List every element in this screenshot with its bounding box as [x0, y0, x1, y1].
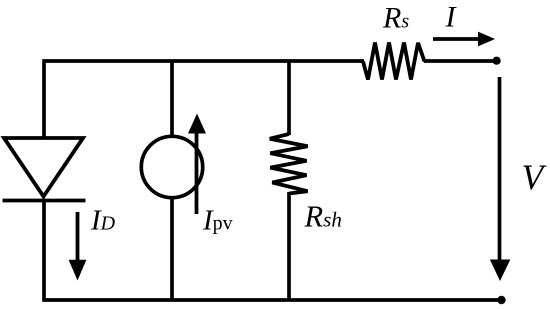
svg-text:Rs: Rs [382, 2, 409, 35]
node - : bottom-right terminal dot [497, 296, 505, 304]
svg-text:Rsh: Rsh [304, 199, 342, 233]
svg-text:I: I [445, 0, 458, 33]
current source Ipv circle [141, 136, 202, 197]
diode D1 cathode bar [3, 199, 86, 203]
resistor Rsh (vertical zigzag) [270, 134, 308, 194]
svg-text:ID: ID [90, 205, 116, 237]
wire current source bottom to bottom rail [170, 198, 174, 300]
node + : top-right terminal dot [493, 57, 501, 65]
arrow of current source Ipv (upward) [188, 114, 206, 215]
wire middle branch top (current source to top rail) [170, 61, 174, 136]
svg-text:V: V [522, 157, 548, 197]
wire Rsh branch top [287, 61, 291, 135]
wire top-left: left vertical + top horizontal run to Rs [42, 61, 364, 138]
wire top-right: from Rs to positive terminal [424, 59, 495, 63]
svg-text:Ipv: Ipv [202, 205, 233, 237]
wire Rsh bottom to bottom rail [287, 192, 291, 300]
resistor Rs (horizontal zigzag) [363, 43, 425, 80]
arrow current I (top right, pointing right) [433, 32, 495, 47]
arrow of ID (downward, under diode) [69, 212, 87, 281]
wire bottom rail [42, 298, 501, 302]
diode D1 triangle (anode) [4, 138, 83, 197]
arrow voltage V (right side, pointing down) [490, 77, 510, 281]
wire diode bottom to bottom rail [42, 199, 46, 300]
